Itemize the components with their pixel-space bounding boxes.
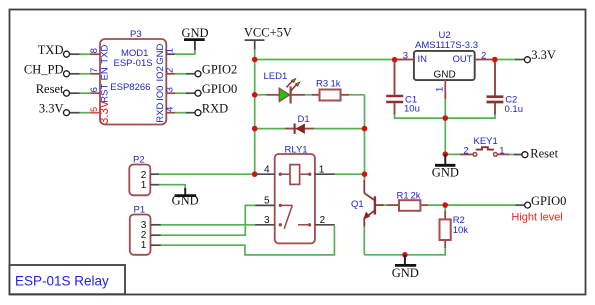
- junction VCC T: [252, 57, 258, 63]
- ground symbol under Q1/R2: [392, 255, 419, 280]
- svg-text:3.3V: 3.3V: [99, 100, 111, 124]
- title block box: [10, 265, 126, 294]
- capacitor C2 0.1u: [487, 62, 524, 115]
- svg-text:P2: P2: [133, 154, 145, 165]
- svg-text:IO0: IO0: [155, 86, 166, 101]
- svg-text:IN: IN: [418, 54, 428, 65]
- port GPIO2: [195, 63, 237, 77]
- P3 pin 5 3.3V (red): [70, 100, 111, 124]
- svg-text:D1: D1: [298, 114, 310, 125]
- svg-text:Q1: Q1: [351, 199, 364, 210]
- svg-text:R1: R1: [397, 191, 409, 202]
- junction U2 pin2 / C2: [492, 57, 498, 63]
- connector P2: [129, 154, 159, 195]
- wire C2 bottom to GND node: [445, 113, 495, 118]
- svg-text:R3: R3: [316, 79, 328, 90]
- wire P1 pin2 to relay pin5: [159, 205, 256, 235]
- svg-text:GND: GND: [392, 266, 419, 280]
- svg-text:2: 2: [165, 68, 176, 73]
- svg-text:6: 6: [89, 87, 100, 92]
- svg-text:2: 2: [481, 50, 486, 61]
- diode D1: [285, 114, 314, 134]
- junction relay pin1 / Q1 collector: [362, 171, 368, 177]
- svg-text:Reset: Reset: [36, 82, 64, 96]
- svg-text:10u: 10u: [404, 104, 420, 115]
- wire P2 pin1 to GND: [158, 185, 185, 189]
- wire C1 bottom to GND node: [395, 112, 446, 118]
- transistor Q1: [351, 180, 384, 227]
- svg-text:TXD: TXD: [100, 45, 111, 64]
- port TXD: [38, 43, 70, 57]
- resistor R2 10k: [440, 211, 469, 248]
- wire P1 pin3 to relay pin3: [159, 224, 256, 226]
- svg-text:AMS1117S-3.3: AMS1117S-3.3: [415, 40, 478, 51]
- U2 pin 3 lead: [397, 50, 414, 61]
- svg-text:LED1: LED1: [264, 71, 288, 82]
- svg-text:RXD: RXD: [155, 103, 166, 123]
- wire VCC+5V row to U2 pin3: [255, 59, 409, 61]
- P3 pin 7 EN: [70, 67, 111, 80]
- wire C2 branch down: [494, 60, 496, 88]
- relay pin 4 lead: [256, 165, 275, 176]
- svg-text:OUT: OUT: [453, 54, 473, 65]
- svg-text:GND: GND: [155, 44, 166, 65]
- svg-text:EN: EN: [100, 67, 111, 80]
- junction C1 C2 GND node: [443, 115, 449, 121]
- LED LED1: [264, 71, 305, 103]
- svg-text:ESP8266: ESP8266: [110, 82, 150, 93]
- wire KEY1 pin1 to Reset port: [508, 154, 515, 156]
- svg-text:RXD: RXD: [202, 102, 228, 116]
- capacitor C1 10u: [386, 62, 420, 115]
- svg-text:GPIO0: GPIO0: [531, 194, 566, 208]
- wire R2 top branch: [444, 205, 446, 217]
- junction D1 row right: [362, 126, 368, 132]
- U2 pin 1 lead: [434, 80, 445, 99]
- svg-text:GPIO0: GPIO0: [202, 82, 237, 96]
- svg-text:Hight level: Hight level: [511, 212, 562, 224]
- svg-text:0.1u: 0.1u: [505, 104, 524, 115]
- svg-text:3: 3: [264, 215, 270, 226]
- P3 pin 1 GND: [155, 44, 195, 65]
- P3 pin 8 TXD: [70, 45, 111, 64]
- svg-text:3: 3: [165, 87, 176, 92]
- svg-text:8: 8: [89, 48, 100, 53]
- port Reset (left): [36, 82, 70, 96]
- junction U2 pin3 / C1: [392, 57, 398, 63]
- port 3.3V (left): [39, 102, 70, 116]
- junction KEY1 branch: [443, 151, 449, 157]
- svg-text:GND: GND: [432, 166, 459, 180]
- svg-text:P1: P1: [134, 204, 146, 215]
- wire vertical R3 to Q1 collector x=364.5: [364, 95, 366, 181]
- regulator U2 AMS1117S-3.3: [414, 30, 478, 81]
- svg-text:1: 1: [141, 240, 147, 251]
- wire U2 pin1 down through junctions to GND: [444, 92, 446, 154]
- svg-text:2: 2: [463, 145, 468, 156]
- P3 pin 6 RST: [70, 84, 111, 103]
- P3 pin 2 GPIO2: [155, 66, 195, 81]
- wire emitter to R2 bottom along y=253.8: [364, 246, 445, 255]
- svg-text:IO2: IO2: [155, 66, 166, 81]
- wire Q1 base to R1: [380, 204, 400, 206]
- ground symbol near P3 pin1: [173, 26, 209, 54]
- svg-text:4: 4: [264, 165, 270, 176]
- svg-text:5: 5: [89, 107, 99, 112]
- module P3 box: [100, 29, 166, 125]
- svg-text:2k: 2k: [411, 191, 421, 202]
- port RXD: [195, 102, 228, 116]
- P3 pin 4 RXD: [155, 103, 195, 123]
- svg-text:P3: P3: [130, 29, 142, 40]
- junction relay pin4: [252, 171, 258, 177]
- ground symbol near P2: [172, 188, 199, 208]
- relay pin 2 lead: [315, 215, 335, 226]
- svg-text:GND: GND: [182, 26, 209, 40]
- junction GND tap under Q1: [402, 252, 408, 258]
- svg-text:GND: GND: [172, 194, 199, 208]
- svg-text:VCC+5V: VCC+5V: [244, 26, 292, 40]
- port 3.3V (right): [515, 48, 556, 63]
- svg-text:RLY1: RLY1: [285, 145, 308, 156]
- wire LED/R3 row: [255, 94, 365, 96]
- svg-text:1: 1: [434, 87, 445, 92]
- U2 pin 2 lead: [475, 50, 493, 61]
- resistor R3 1k: [312, 79, 349, 101]
- svg-text:5: 5: [264, 196, 270, 207]
- relay pin 1 lead: [315, 165, 335, 176]
- svg-text:1: 1: [141, 180, 147, 191]
- wire Q1 emitter down: [363, 222, 365, 255]
- junction LED row: [252, 92, 258, 98]
- relay pin 3 lead: [255, 215, 274, 226]
- junction R1 R2 GPIO0: [442, 202, 448, 208]
- svg-text:ESP-01S Relay: ESP-01S Relay: [15, 274, 109, 289]
- wire U2 pin3 junction to C1: [394, 60, 396, 87]
- relay coil: [279, 165, 312, 185]
- svg-text:1: 1: [165, 48, 176, 53]
- svg-text:3: 3: [403, 50, 408, 61]
- svg-text:GND: GND: [434, 70, 456, 81]
- port Reset (right): [514, 146, 559, 160]
- wire D1 row: [255, 128, 365, 130]
- relay RLY1 box: [275, 145, 315, 244]
- port GPIO0 (right): [516, 194, 567, 208]
- wire relay pin1 to Q1 collector junction: [334, 173, 365, 175]
- svg-text:KEY1: KEY1: [474, 136, 498, 147]
- svg-text:2: 2: [320, 215, 326, 226]
- wire P2 pin2 to relay pin4: [158, 173, 256, 175]
- svg-text:GPIO2: GPIO2: [202, 63, 237, 77]
- svg-text:1: 1: [499, 145, 504, 156]
- connector P1: [130, 204, 161, 255]
- svg-text:RST: RST: [100, 84, 111, 103]
- wire R1 to GPIO0 port: [426, 204, 516, 206]
- VCC+5V power symbol: [245, 40, 265, 50]
- ground symbol under U2: [432, 154, 459, 179]
- svg-text:Reset: Reset: [530, 146, 558, 160]
- port GPIO0 (module): [195, 82, 237, 96]
- svg-text:CH_PD: CH_PD: [24, 63, 64, 77]
- svg-text:3.3V: 3.3V: [39, 102, 64, 116]
- svg-text:ESP-01S: ESP-01S: [114, 58, 153, 69]
- pushbutton KEY1: [460, 136, 509, 157]
- port CH_PD: [24, 63, 70, 77]
- wire VCC vertical x=254.7 from VCC to relay pin4 row: [158, 50, 516, 255]
- svg-text:3.3V: 3.3V: [531, 48, 556, 62]
- relay pin 5 lead: [255, 196, 274, 207]
- junction D1 row left: [252, 126, 258, 132]
- svg-text:7: 7: [89, 68, 100, 73]
- svg-text:4: 4: [165, 107, 176, 112]
- resistor R1 2k: [387, 191, 428, 211]
- wire P1 pin1 to relay pin2: [159, 226, 334, 255]
- svg-text:TXD: TXD: [38, 43, 64, 57]
- relay switch: [279, 204, 312, 229]
- svg-text:10k: 10k: [453, 225, 469, 236]
- svg-text:1: 1: [319, 165, 325, 176]
- wire U2 pin2 to 3.3V port: [497, 59, 516, 61]
- P3 pin 3 GPIO0: [155, 86, 195, 101]
- wire GND node to KEY1 pin2: [445, 153, 470, 155]
- svg-text:1k: 1k: [331, 79, 341, 90]
